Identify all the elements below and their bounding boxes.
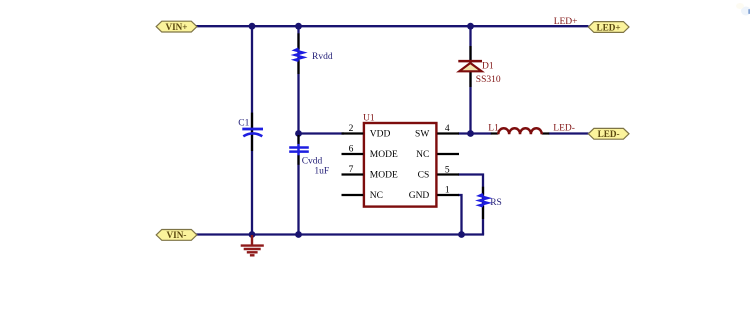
node GND rail xyxy=(458,231,465,238)
diode D1 xyxy=(458,46,482,87)
svg-text:MODE: MODE xyxy=(370,171,398,181)
svg-text:NC: NC xyxy=(370,191,383,201)
ground xyxy=(241,235,264,255)
svg-text:NC: NC xyxy=(416,150,429,160)
node Cvdd bottom xyxy=(295,231,302,238)
svg-text:6: 6 xyxy=(349,145,354,155)
node top D1 xyxy=(467,23,474,30)
svg-text:GND: GND xyxy=(409,191,430,201)
pin 2 VDD stub xyxy=(342,132,364,134)
port LED- xyxy=(588,128,629,139)
wire cropped mark top-right corner xyxy=(736,3,750,16)
svg-text:RS: RS xyxy=(490,198,502,208)
svg-text:LED+: LED+ xyxy=(597,22,621,32)
node SW/D1/L1 xyxy=(467,130,474,137)
wire SW row to L1 xyxy=(458,132,492,134)
port LED+ xyxy=(588,22,629,33)
svg-text:2: 2 xyxy=(349,124,354,134)
svg-text:4: 4 xyxy=(445,124,450,134)
svg-text:LED+: LED+ xyxy=(554,17,578,27)
svg-text:VIN-: VIN- xyxy=(167,230,187,240)
wire CS to RS xyxy=(458,175,483,235)
svg-text:Cvdd: Cvdd xyxy=(302,157,323,167)
wire bottom rail VIN- xyxy=(196,233,484,235)
resistor RS xyxy=(479,187,488,219)
pin 4 SW stub xyxy=(437,132,459,134)
wire C1 column xyxy=(251,26,253,234)
wire D1 column xyxy=(469,26,471,133)
svg-text:7: 7 xyxy=(349,165,354,175)
svg-text:1uF: 1uF xyxy=(314,166,329,176)
node ground xyxy=(249,231,256,238)
svg-text:LED-: LED- xyxy=(598,129,620,139)
capacitor C1 xyxy=(242,113,263,151)
svg-text:MODE: MODE xyxy=(370,150,398,160)
node VDD/Cvdd xyxy=(295,130,302,137)
pin 6 MODE stub xyxy=(342,153,364,155)
svg-text:5: 5 xyxy=(445,166,450,176)
wire VDD feed xyxy=(299,132,345,134)
svg-text:VIN+: VIN+ xyxy=(165,22,187,32)
svg-text:CS: CS xyxy=(418,171,430,181)
pin NC right stub xyxy=(437,153,459,155)
svg-text:C1: C1 xyxy=(238,119,249,129)
svg-text:D1: D1 xyxy=(482,62,494,72)
svg-text:1: 1 xyxy=(445,186,450,196)
pin 7 MODE stub xyxy=(342,173,364,175)
svg-text:LED-: LED- xyxy=(553,124,575,134)
node top C1 xyxy=(249,23,256,30)
wire Rvdd/Cvdd column xyxy=(297,26,299,234)
capacitor Cvdd xyxy=(289,135,309,165)
port VIN- xyxy=(156,230,197,241)
resistor Rvdd xyxy=(295,33,304,74)
node top Rvdd xyxy=(295,23,302,30)
svg-text:SW: SW xyxy=(415,130,429,140)
inductor L1 xyxy=(491,128,549,134)
port VIN+ xyxy=(156,21,197,32)
svg-text:U1: U1 xyxy=(363,113,375,123)
pin 1 GND stub xyxy=(437,194,459,196)
svg-text:L1: L1 xyxy=(488,124,499,134)
svg-text:Rvdd: Rvdd xyxy=(312,52,333,62)
pin 5 CS stub xyxy=(437,173,459,175)
pin NC left stub xyxy=(342,194,364,196)
wire L1 to LED- xyxy=(549,132,589,134)
svg-text:VDD: VDD xyxy=(370,130,391,140)
svg-text:SS310: SS310 xyxy=(476,75,501,85)
op-amp U1 body xyxy=(364,123,437,207)
wire top rail VIN+ to LED+ xyxy=(196,25,589,27)
wire GND pin drop xyxy=(458,195,462,235)
